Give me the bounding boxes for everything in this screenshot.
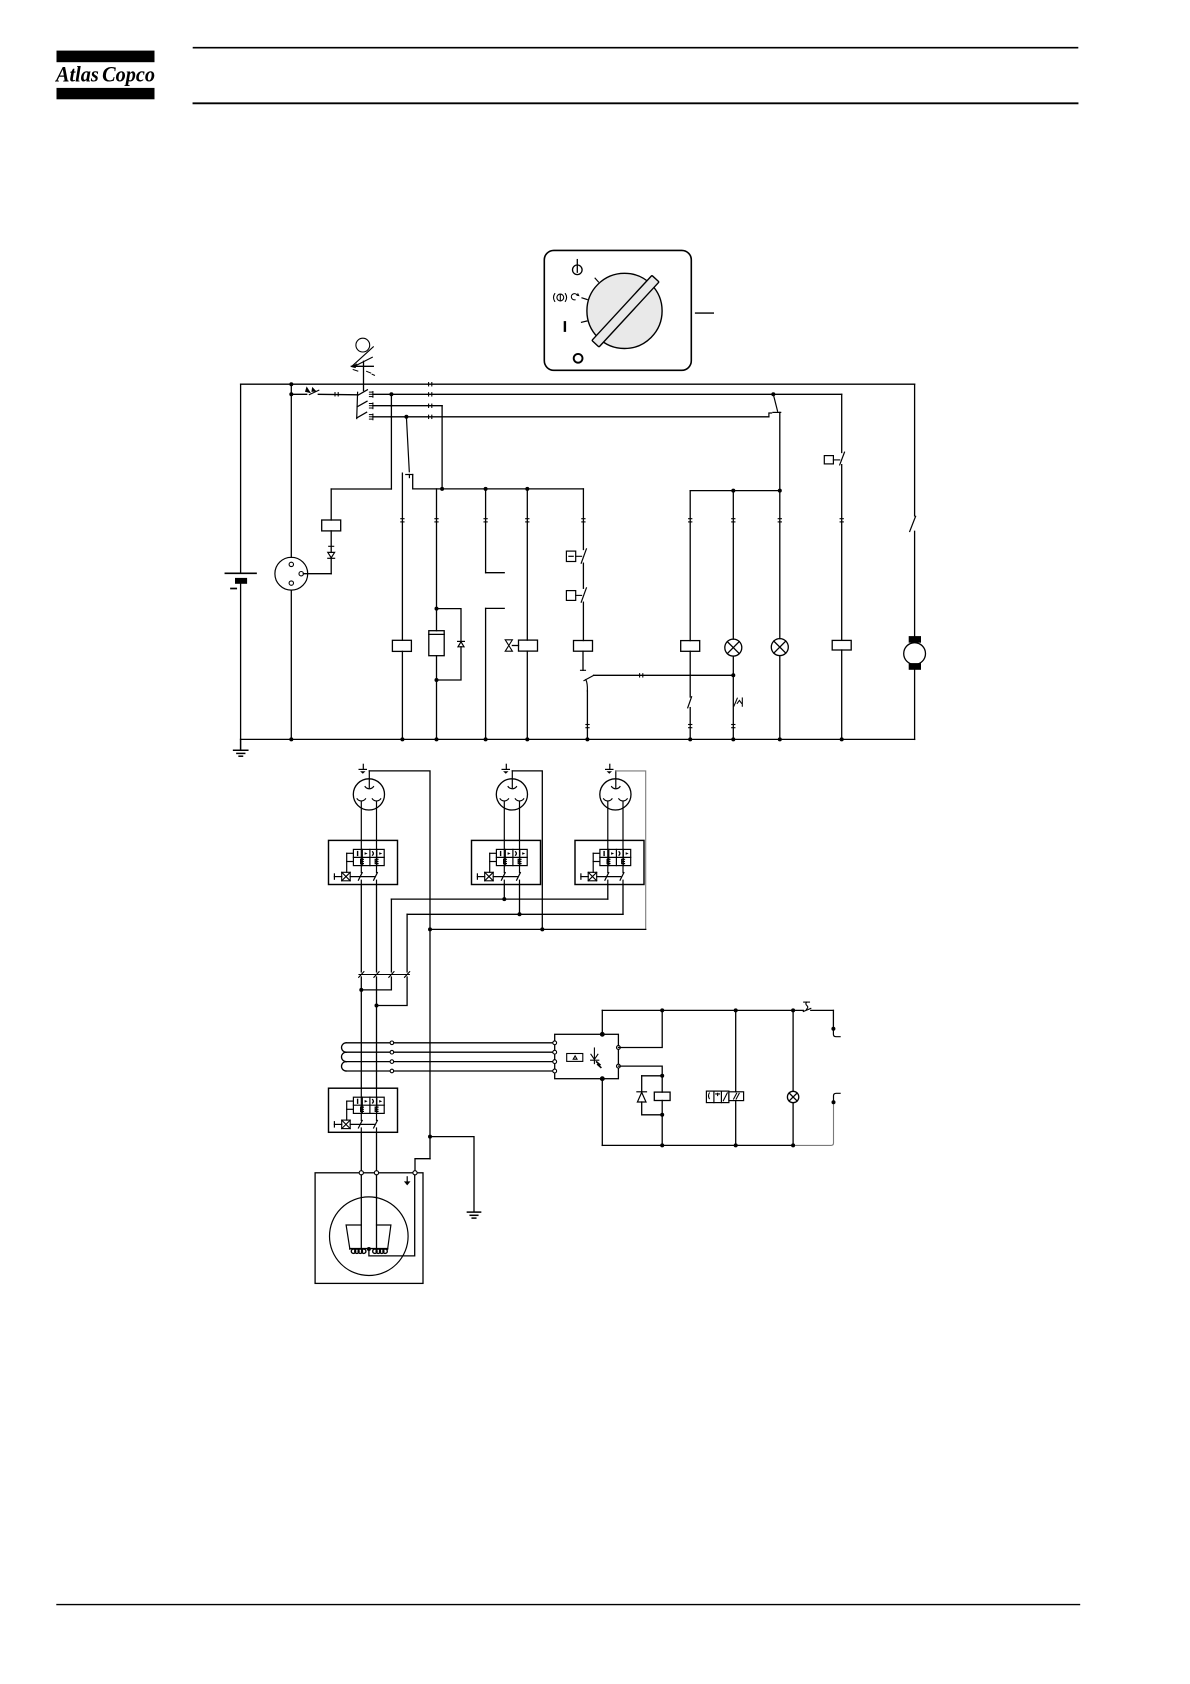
bus A drop wire bbox=[390, 899, 392, 972]
temperature switch S3 body bbox=[566, 591, 575, 601]
wire 4 merge into wire 2 bbox=[377, 977, 408, 1006]
K2 lower stub bbox=[581, 651, 586, 670]
chassis ground symbol bbox=[467, 1212, 480, 1218]
E3 ground loop wire bbox=[616, 771, 646, 930]
K2 changeover contact bbox=[584, 675, 594, 691]
S2 contact bbox=[581, 549, 586, 563]
junction rail/K3 bbox=[688, 737, 692, 741]
changeover contact arm from W3 bbox=[406, 417, 409, 472]
junction W1 start bbox=[289, 392, 293, 396]
junction bus/temp branch bbox=[484, 487, 488, 491]
actuator crossbar bbox=[351, 365, 373, 367]
mechanical link dashes bbox=[353, 370, 374, 376]
glow plug feed wire 1 bbox=[360, 1175, 362, 1249]
wire K2 contact to ground rail bbox=[586, 691, 588, 740]
actuator arrowhead bbox=[351, 363, 358, 368]
switch terminal comb 3 bbox=[369, 414, 373, 420]
knob position tick 3 bbox=[582, 321, 587, 322]
junction remote switch upper bbox=[831, 1027, 835, 1031]
junction bottom rail/K5 bbox=[660, 1143, 664, 1147]
flasher element on H1 branch bbox=[734, 698, 742, 706]
wire changeover to bus bbox=[413, 475, 584, 489]
wire H2 to ground rail bbox=[779, 656, 781, 740]
floodlight lamp E1 bbox=[353, 764, 384, 840]
wire 3 merge into wire 1 bbox=[361, 977, 391, 990]
off icon O bbox=[574, 354, 583, 363]
junction W2 crossing bbox=[390, 405, 392, 407]
battery isolator / fuse symbol on W1 bbox=[305, 386, 319, 394]
accessory top rail bbox=[602, 1009, 833, 1011]
wire 2 below connector bbox=[376, 977, 378, 1088]
rotary switch contact arm 2 bbox=[357, 401, 367, 407]
junction rail/Y3 bbox=[734, 1008, 738, 1012]
floodlight lamp E2 bbox=[496, 764, 527, 840]
wire diode V0 to plug bbox=[330, 558, 332, 573]
junction A1 top pin bbox=[601, 1033, 604, 1036]
aux bus wire bbox=[690, 490, 780, 492]
Atlas Copco logo bottom bar bbox=[57, 88, 155, 99]
combustion pot outline bbox=[346, 1225, 391, 1249]
wire A1 top pin to accessory rail bbox=[601, 1010, 603, 1032]
generator connector W plug bbox=[275, 557, 308, 590]
E3 feed wires down bbox=[608, 885, 623, 915]
junction bus C/E1 ground bbox=[428, 927, 432, 931]
rotary switch faceplate S1 bbox=[544, 250, 691, 370]
A1 top pin bbox=[600, 1032, 604, 1036]
solenoid valve Y3 body bbox=[706, 1091, 743, 1103]
junction K5/V2 bottom bbox=[660, 1113, 664, 1117]
manual actuator circle bbox=[356, 338, 370, 352]
coil centre tap dot bbox=[367, 1247, 371, 1251]
engine body circle bbox=[330, 1197, 409, 1276]
wire Y3 to bottom rail bbox=[735, 1101, 737, 1146]
accessory lamp H3 bbox=[787, 1091, 798, 1102]
terminal tick pairs on W0..W3 bbox=[429, 383, 432, 419]
junction W1/K0 branch bbox=[389, 392, 393, 396]
junction rail/K1 bbox=[400, 737, 404, 741]
switch terminal comb 2 bbox=[369, 403, 373, 409]
lamp E1 junction box bbox=[329, 840, 398, 884]
E1 feed wires down bbox=[361, 885, 376, 972]
terminal ticks K2 rail side bbox=[586, 725, 589, 728]
accessory lamp H3 branch wire bbox=[792, 1010, 794, 1091]
junction bus/valve branch bbox=[525, 487, 529, 491]
rotary switch handle bbox=[592, 275, 659, 347]
terminal ticks S2 branch bbox=[582, 519, 585, 522]
starter motor M1 bbox=[904, 636, 926, 670]
lower junction box X2 bbox=[329, 1088, 398, 1132]
lamp ground bus C bbox=[430, 928, 646, 930]
left rail (battery branch) bbox=[240, 384, 242, 739]
switch position dash bbox=[696, 312, 714, 314]
wire M1 to ground rail bbox=[914, 670, 916, 740]
X1 pole slashes bbox=[359, 972, 410, 978]
wire S4 to relay K4 bbox=[841, 465, 843, 641]
accessory bottom rail bbox=[602, 1144, 793, 1146]
terminal ticks K1 branch bbox=[401, 519, 404, 522]
starter branch wire from W0 bbox=[914, 384, 916, 516]
actuator lever line 2 bbox=[354, 357, 373, 367]
oil pressure branch wire from bus bbox=[582, 489, 584, 550]
glow box pin 3 bbox=[413, 1171, 417, 1175]
harness wires to regulator bbox=[394, 1043, 553, 1071]
junction bus/W2 bbox=[440, 487, 444, 491]
ground wire from bus C down bbox=[429, 929, 431, 1158]
regulator unit A1 bbox=[555, 1034, 619, 1078]
A1 zener diode symbol bbox=[591, 1048, 601, 1067]
charge relay coil K0 bbox=[322, 520, 341, 531]
temperature switch branch upper wire bbox=[485, 489, 487, 573]
wire K5 coil branch to diode bbox=[642, 1075, 663, 1077]
lamp bus B bbox=[407, 913, 623, 915]
glow plug unit box bbox=[315, 1173, 423, 1284]
junction rail/Y2 bbox=[525, 737, 529, 741]
junction rail/H3 bbox=[791, 1008, 795, 1012]
switch terminal comb 1 bbox=[369, 392, 373, 398]
wire 1 below connector bbox=[360, 977, 362, 1088]
relay coil K5 bbox=[654, 1092, 670, 1100]
lamp E3 junction box bbox=[575, 840, 644, 884]
junction W0/plug branch bbox=[289, 382, 293, 386]
indicator lamp H1 bbox=[725, 639, 742, 656]
lamp E2 junction box bbox=[472, 840, 541, 884]
junction rail/Y1 bbox=[435, 737, 439, 741]
diode V0 bbox=[328, 552, 335, 558]
bus B drop wire bbox=[406, 914, 408, 972]
junction aux bus/H1 bbox=[731, 489, 735, 493]
valve solenoid coil Y2 bbox=[519, 640, 538, 651]
glow icon (bulb) bbox=[573, 260, 583, 275]
wire W1 branch to K0 bbox=[331, 394, 391, 520]
wire H1 to ground rail bbox=[732, 656, 734, 739]
terminal ticks H1 branch bbox=[732, 519, 735, 522]
wire A1 pin to relay K5 bbox=[618, 1066, 662, 1092]
remote switch upper terminal bbox=[833, 1029, 840, 1037]
diode V2 bbox=[637, 1092, 647, 1102]
diode V2 lower wire bbox=[642, 1102, 663, 1115]
wire W1 right end down bbox=[841, 394, 843, 452]
S3 actuating link bbox=[576, 594, 582, 596]
junction W1 hourmeter contact bbox=[771, 392, 775, 396]
branch junction dot bbox=[428, 1135, 432, 1139]
plug pin right bbox=[299, 572, 303, 576]
wire plug to charge relay bbox=[303, 573, 331, 575]
wire changeover left terminal to relay K1 bbox=[401, 473, 403, 640]
junction aux bus/H2 bbox=[778, 489, 782, 493]
E2 ground loop wire bbox=[512, 771, 542, 930]
S4 contact bbox=[840, 452, 845, 465]
junction A1 bottom pin bbox=[601, 1077, 604, 1080]
starter relay contact bbox=[910, 516, 916, 531]
E1 ground loop wire bbox=[369, 771, 430, 930]
junction W3 crossing bbox=[390, 416, 392, 418]
actuator lever line 1 bbox=[352, 347, 373, 366]
flyback diode V1 bbox=[458, 641, 465, 646]
indicator lamp H2 bbox=[771, 639, 788, 656]
wire K0 to diode V0 bbox=[330, 531, 332, 553]
rotary switch contact arm 3 bbox=[357, 412, 367, 418]
junction rail/temp branch bbox=[484, 737, 488, 741]
wire H3 to bottom rail bbox=[792, 1103, 794, 1146]
plug pin bottom bbox=[289, 581, 293, 585]
wire W0 (+ rail from battery) bbox=[241, 383, 915, 385]
internal ground arrow bbox=[404, 1177, 411, 1186]
A1 right pins bbox=[617, 1046, 621, 1068]
plug pin top bbox=[289, 562, 293, 566]
wire K5 to bottom rail bbox=[661, 1101, 663, 1146]
wire W2 bbox=[373, 405, 442, 407]
thermal cutout on rail bbox=[803, 1002, 811, 1011]
knob position tick 2 bbox=[582, 298, 587, 300]
run icon I bbox=[564, 322, 566, 330]
terminal ticks K4 branch bbox=[840, 519, 843, 522]
junction remote switch lower bbox=[832, 1100, 836, 1104]
wire Y2 to ground rail bbox=[526, 651, 528, 739]
relay coil K2 bbox=[574, 641, 593, 652]
wire W2 down to bus bbox=[441, 406, 443, 489]
interlock cross wire bbox=[594, 674, 734, 676]
cable loom serpentine bbox=[342, 1043, 391, 1071]
glow box pin 2 bbox=[374, 1171, 378, 1175]
wire W1 bbox=[291, 393, 841, 396]
knob position tick 1 bbox=[595, 278, 598, 282]
terminal ticks K3 branch bbox=[689, 519, 692, 522]
indicator lamp H2 branch wire bbox=[779, 491, 781, 639]
junction bottom rail/H3 bbox=[791, 1143, 795, 1147]
junction solenoid loop top bbox=[435, 607, 439, 611]
temperature switch upper contact tick bbox=[486, 572, 505, 574]
header rule bottom bbox=[194, 102, 1078, 104]
A1 internal block bbox=[567, 1054, 583, 1062]
relay coil K4 bbox=[832, 640, 851, 650]
terminal ticks K3 rail side bbox=[689, 725, 692, 728]
wire Y1 to ground rail bbox=[436, 656, 438, 740]
tick pair on cross wire bbox=[640, 674, 643, 677]
S3 contact bbox=[581, 588, 586, 602]
wire valve to coil Y2 bbox=[512, 645, 518, 647]
flyback diode loop wire bbox=[437, 609, 462, 642]
solenoid valve branch wire bbox=[735, 1010, 737, 1091]
generator connector branch wire bbox=[290, 384, 292, 739]
K3 contact bbox=[688, 651, 692, 739]
air valve symbol bbox=[505, 640, 512, 651]
junction wire3/wire1 merge bbox=[359, 988, 363, 992]
footer rule bbox=[57, 1604, 1080, 1606]
glow box pin 1 bbox=[359, 1171, 363, 1175]
oil pressure switch S2 body bbox=[566, 551, 575, 561]
floodlight lamp E3 bbox=[600, 764, 631, 840]
wire A1 bottom pin down bbox=[601, 1081, 603, 1146]
wire W3 bbox=[373, 416, 769, 418]
hour counter feed contact from W1 bbox=[769, 394, 781, 417]
glow plug feed wire 2 bbox=[376, 1175, 378, 1249]
glow plug coil 1 bbox=[350, 1249, 369, 1254]
junction rail/K5 riser bbox=[660, 1008, 664, 1012]
junction rail/H2 bbox=[778, 737, 782, 741]
rotary switch knob bbox=[587, 273, 662, 348]
junction wire4/wire2 merge bbox=[375, 1004, 379, 1008]
temperature switch branch lower wire bbox=[485, 608, 487, 739]
temperature switch lower contact tick bbox=[486, 607, 505, 609]
wire contact to aux bus bbox=[779, 412, 781, 490]
S4 actuating link bbox=[833, 459, 839, 461]
terminal ticks temp branch bbox=[484, 519, 487, 522]
remote switch lower terminal bbox=[834, 1093, 841, 1102]
wire A1 pin to rail riser bbox=[618, 1010, 662, 1047]
remote switch upper wire bbox=[832, 1010, 834, 1028]
diode V2 branch upper wire bbox=[641, 1076, 643, 1092]
air valve branch wire bbox=[526, 489, 528, 640]
relay K3 branch wire bbox=[689, 491, 691, 641]
junction bottom rail/Y3 bbox=[734, 1143, 738, 1147]
branch to chassis ground bbox=[430, 1137, 474, 1212]
harness connector X1 bar bbox=[359, 974, 409, 976]
junction solenoid loop bottom bbox=[435, 678, 439, 682]
junction K5/V2 top bbox=[660, 1074, 664, 1078]
wire between pressure switches bbox=[582, 563, 584, 588]
A1 left pins bbox=[553, 1041, 557, 1073]
junction bus A/E2 bbox=[502, 897, 506, 901]
bottom rail (ground bus) bbox=[241, 738, 915, 740]
fuel solenoid Y1 bbox=[429, 631, 444, 656]
preheat/start icon bbox=[554, 293, 580, 302]
battery minus sign bbox=[231, 588, 236, 590]
rotary switch gang bar bbox=[356, 392, 359, 418]
glow plug coil 2 bbox=[369, 1249, 388, 1254]
header rule top bbox=[194, 47, 1078, 49]
junction rail/K4 bbox=[840, 737, 844, 741]
junction rail/K2 contact bbox=[585, 737, 589, 741]
junction bus B/E2 bbox=[518, 912, 522, 916]
junction rail/plug branch bbox=[289, 737, 293, 741]
main ground symbol bbox=[234, 739, 248, 756]
A1 bottom pin bbox=[600, 1077, 604, 1081]
flyback loop return wire bbox=[437, 647, 462, 680]
relay coil K3 bbox=[681, 641, 700, 652]
battery G1 minus plate bbox=[235, 578, 247, 584]
rotary switch contact arm 1 bbox=[358, 390, 368, 396]
battery G1 plus plate bbox=[225, 572, 256, 574]
Atlas Copco logo top bar bbox=[57, 51, 155, 63]
pressure switch S4 body bbox=[824, 456, 833, 464]
svg-text:Atlas Copco: Atlas Copco bbox=[54, 62, 155, 87]
terminal ticks Y2 branch bbox=[526, 519, 529, 522]
loom connector pins bbox=[390, 1041, 394, 1073]
centre tap return wire bbox=[369, 1175, 415, 1256]
changeover fixed bar bbox=[406, 475, 413, 478]
actuator stem bbox=[363, 361, 365, 390]
E2 feed wires down bbox=[504, 885, 519, 915]
junction cross wire/H1 branch bbox=[731, 673, 735, 677]
terminal tick pair W1 left bbox=[335, 393, 338, 396]
S2 actuating link bbox=[576, 555, 582, 557]
junction rail/H1 bbox=[731, 737, 735, 741]
wire contact to starter motor bbox=[914, 531, 916, 637]
terminal ticks H1 rail side bbox=[732, 725, 735, 728]
wires through X2 bbox=[361, 1132, 376, 1171]
terminal ticks Y1 branch bbox=[435, 519, 438, 522]
terminal ticks H2 branch bbox=[778, 519, 781, 522]
wire S3 to relay K2 bbox=[582, 602, 584, 640]
jog to glow plug pin bbox=[415, 1159, 430, 1171]
fuel solenoid branch wire bbox=[436, 489, 438, 631]
indicator lamp H1 branch wire bbox=[732, 491, 734, 639]
remote switch lower wire bbox=[793, 1102, 833, 1145]
wire K1 to ground rail bbox=[401, 651, 403, 739]
lamp bus A bbox=[391, 898, 607, 900]
junction bus C/E2 ground bbox=[540, 927, 544, 931]
wire K4 to ground rail bbox=[841, 650, 843, 739]
tick on K0 wire bbox=[329, 545, 334, 547]
junction W3 changeover bbox=[404, 415, 408, 419]
relay coil K1 bbox=[392, 640, 411, 651]
